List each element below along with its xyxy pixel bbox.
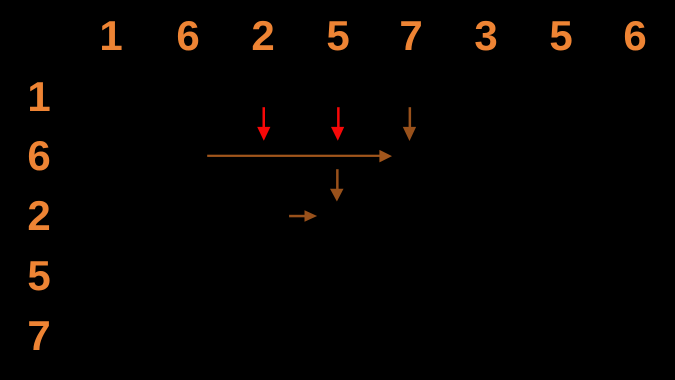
top row digit 6b — [605, 15, 665, 57]
left column digit 6 — [9, 135, 69, 177]
top row digit 5 — [308, 15, 368, 57]
red down arrow at column 2 — [257, 107, 270, 141]
brown down arrow at column 7 — [403, 107, 416, 141]
top row digit 7 — [381, 15, 441, 57]
top row digit 5b — [531, 15, 591, 57]
left column digit 2 — [9, 195, 69, 237]
left column digit 1 — [9, 76, 69, 118]
brown down arrow below horizontal arrow — [330, 169, 344, 201]
left column digit 7 — [9, 315, 69, 357]
top row digit 6 — [158, 15, 218, 57]
top row digit 2 — [233, 15, 293, 57]
left column digit 5 — [9, 255, 69, 297]
top row digit 3 — [456, 15, 516, 57]
long brown horizontal arrow — [207, 150, 392, 163]
top row digit 1 — [81, 15, 141, 57]
short brown right arrow — [289, 210, 317, 222]
red down arrow at column 5 — [331, 107, 344, 141]
